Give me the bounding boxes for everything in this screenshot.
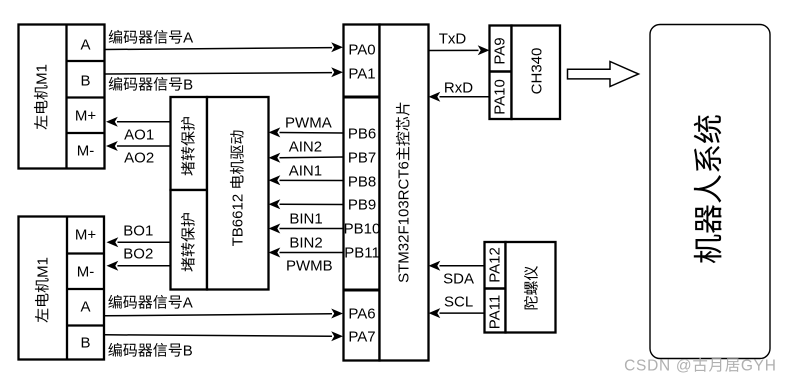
pin PA7 (STM32) [348,330,375,345]
pin B (top motor) [80,73,90,88]
label BIN2 [289,236,322,251]
pin PB10 (STM32) [344,222,381,237]
label 堵转保护 (top, vertical) [181,115,196,175]
pin PB11 (STM32) [344,246,380,261]
pin M- (bottom motor) [77,264,95,279]
label CH340 (vertical) [529,47,544,94]
label 堵转保护 (bottom, vertical) [181,211,196,271]
label BIN1 [289,212,322,227]
label TxD [439,32,467,47]
pin PA12 (gyroscope, vertical) [487,247,502,283]
label AIN2 [289,140,322,155]
label SDA [443,272,474,287]
label 机器人系统 (vertical) [695,114,725,264]
label BO2 [123,247,153,262]
pin PA10 (CH340, vertical) [493,79,508,115]
pin B (bottom motor) [80,336,90,351]
pin PB7 (STM32) [348,150,376,165]
pin PA6 (STM32) [348,307,375,322]
pin PA1 (STM32) [348,67,375,82]
pin M- (top motor) [77,144,95,159]
label AIN1 [289,163,322,178]
label 陀螺仪 (vertical) [524,265,539,310]
pin A (bottom motor) [80,300,90,315]
label AO1 [124,127,154,142]
pin PB6 (STM32) [348,127,376,142]
label TB6612电机驱动 (vertical) [230,129,245,246]
label SCL [444,294,473,309]
pin PA9 (CH340, vertical) [493,37,508,64]
pin M+ (top motor) [75,109,96,124]
pin PA11 (gyroscope, vertical) [487,294,502,328]
label 编码器信号B (top) [108,77,193,92]
label PWMB [286,259,333,274]
pin PB8 (STM32) [348,174,376,189]
pin PB9 (STM32) [348,198,376,213]
pin A (top motor) [80,37,90,52]
label PWMA [285,116,332,131]
label 编码器信号A (bottom) [108,295,193,310]
label STM32F103RCT6主控芯片 (vertical) [397,101,412,283]
pin M+ (bottom motor) [75,228,96,243]
pin PA0 (STM32) [348,42,375,57]
label 编码器信号B (bottom) [108,344,193,359]
label 左电机M1 (top motor, vertical) [35,64,50,130]
label RxD [444,80,473,95]
watermark CSDN@古月居GYH [624,358,776,374]
label 左电机M1 (bottom motor, vertical) [35,257,50,323]
label AO2 [124,151,154,166]
label BO1 [123,223,153,238]
label 编码器信号A (top) [108,31,193,46]
